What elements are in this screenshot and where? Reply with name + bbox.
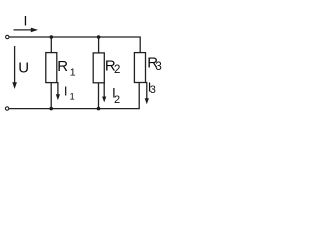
wire top horizontal with corner down to R3 <box>9 37 140 53</box>
svg-text:2: 2 <box>114 94 120 106</box>
resistor R2 <box>93 53 104 83</box>
junction dot top R2 <box>97 35 101 39</box>
wire tick I2 <box>103 83 105 98</box>
wire tick I1 <box>57 83 58 96</box>
svg-text:R: R <box>57 58 68 75</box>
svg-text:I: I <box>23 12 27 28</box>
svg-text:3: 3 <box>155 61 161 73</box>
svg-text:U: U <box>18 59 29 76</box>
svg-text:1: 1 <box>70 92 75 102</box>
resistor R3 <box>134 53 145 83</box>
terminal top-left <box>6 35 9 38</box>
junction dot bottom R2 <box>97 107 101 111</box>
arrowhead I2 <box>102 97 106 103</box>
wire R2 top lead <box>98 37 100 53</box>
junction dot bottom R1 <box>49 107 53 111</box>
wire bottom horizontal with corner up to R3 <box>9 83 139 109</box>
arrowhead U <box>12 82 17 89</box>
terminal bottom-left <box>5 107 8 110</box>
wire R1 top lead <box>50 37 52 53</box>
wire R2 bottom lead <box>98 83 100 109</box>
arrowhead I3 <box>145 98 149 104</box>
junction dot top R1 <box>50 35 54 39</box>
wire R1 bottom lead <box>50 83 52 109</box>
svg-text:3: 3 <box>150 84 156 96</box>
resistor R1 <box>46 53 57 83</box>
wire tick I3 <box>146 83 147 100</box>
svg-text:2: 2 <box>114 64 120 76</box>
arrow I top <box>14 29 32 31</box>
svg-text:I: I <box>64 84 68 99</box>
arrow U <box>14 46 16 83</box>
arrowhead I top <box>31 28 38 33</box>
svg-text:1: 1 <box>70 67 76 79</box>
arrowhead I1 <box>56 94 60 100</box>
